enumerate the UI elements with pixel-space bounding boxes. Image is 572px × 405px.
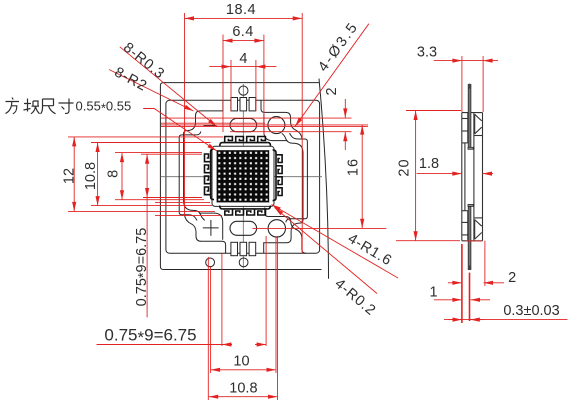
svg-text:0.3±0.03: 0.3±0.03 bbox=[503, 303, 559, 319]
svg-text:1: 1 bbox=[429, 285, 437, 301]
svg-text:16: 16 bbox=[346, 158, 362, 176]
块 bbox=[24, 99, 40, 114]
尺 bbox=[41, 99, 56, 114]
hole center marks left bbox=[203, 126, 219, 236]
right 2 dim bbox=[344, 99, 346, 118]
16 dim bbox=[361, 125, 363, 228]
leader 4-dia3.5 bbox=[295, 24, 369, 127]
1.8 bbox=[417, 173, 462, 175]
leader block size 0.55*0.55 bbox=[143, 109, 216, 151]
寸 bbox=[59, 99, 74, 114]
centerlines bbox=[161, 84, 323, 269]
方 bbox=[6, 98, 20, 114]
bottom column bbox=[467, 211, 469, 241]
svg-text:4: 4 bbox=[239, 51, 247, 67]
bottom reflector bbox=[474, 217, 483, 219]
3.3 bbox=[434, 60, 462, 62]
left stack 12 / 10.8 / 8 bbox=[73, 137, 75, 212]
top-left hole horizontals bbox=[161, 117, 352, 119]
boundary around bottom-right hole bbox=[265, 208, 306, 254]
2 bottom bbox=[448, 282, 462, 284]
4 bbox=[209, 66, 231, 68]
svg-text:3.3: 3.3 bbox=[417, 45, 437, 61]
svg-text:12: 12 bbox=[62, 168, 78, 184]
svg-text:20: 20 bbox=[396, 158, 412, 176]
small index circles bbox=[206, 86, 248, 267]
1 bbox=[434, 299, 462, 301]
inner square bbox=[166, 100, 320, 253]
svg-text:10.8: 10.8 bbox=[83, 162, 99, 190]
rotated 0.75*9=6.75 bbox=[146, 154, 148, 197]
svg-text:10: 10 bbox=[233, 354, 249, 370]
pins bbox=[468, 84, 473, 271]
svg-text:18.4: 18.4 bbox=[226, 2, 256, 18]
pin slots top bbox=[231, 98, 256, 256]
mounting holes right bbox=[268, 117, 285, 134]
hanzi 方块尺寸 drawn as strokes bbox=[6, 98, 74, 114]
top column bbox=[467, 113, 469, 143]
20 bbox=[415, 111, 417, 241]
outer right broken-edge arc bbox=[319, 79, 329, 279]
6.4 bbox=[223, 40, 264, 42]
svg-text:0.55*0.55: 0.55*0.55 bbox=[76, 99, 132, 116]
bottom dims bbox=[97, 344, 233, 346]
svg-text:10.8: 10.8 bbox=[229, 381, 257, 397]
leader 4-R1.6 bbox=[272, 205, 399, 279]
leader 8-R0.3 bbox=[120, 47, 217, 127]
leader 8-R2 bbox=[109, 70, 194, 112]
svg-text:2: 2 bbox=[508, 270, 516, 286]
svg-text:0.75*9=6.75: 0.75*9=6.75 bbox=[104, 326, 196, 348]
meander bands bbox=[220, 137, 271, 147]
svg-text:0.75*9=6.75: 0.75*9=6.75 bbox=[134, 228, 152, 307]
18.4 bbox=[185, 17, 303, 19]
stadium slots bbox=[230, 117, 285, 237]
svg-text:2: 2 bbox=[324, 87, 340, 95]
leader 4-R0.2 bbox=[275, 208, 378, 294]
svg-text:8: 8 bbox=[106, 170, 122, 178]
outer plate outline bbox=[160, 83, 321, 270]
svg-text:6.4: 6.4 bbox=[232, 24, 253, 40]
extra left horizontals bbox=[155, 202, 210, 204]
top reflector bbox=[474, 135, 483, 137]
LED emitting area bbox=[212, 146, 274, 206]
interior channel pattern (C2 symmetric) bbox=[179, 100, 302, 220]
svg-text:1.8: 1.8 bbox=[419, 156, 439, 172]
0.3 bbox=[444, 319, 568, 321]
